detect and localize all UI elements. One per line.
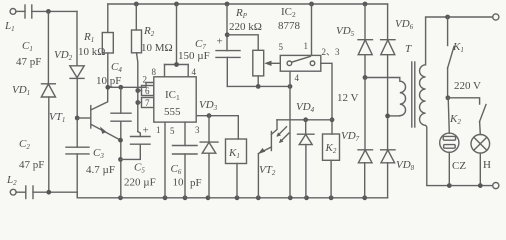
relay coil K2	[323, 134, 340, 198]
svg-text:2、3: 2、3	[322, 47, 341, 57]
wire down to socket CZ	[448, 98, 449, 133]
wires CZ and H to bottom right rail	[449, 152, 480, 185]
transformer primary winding	[420, 17, 427, 186]
svg-text:12 V: 12 V	[337, 92, 359, 104]
wire L1 to C1	[16, 10, 25, 12]
terminal L1	[4, 9, 16, 34]
capacitor C6 10pF	[171, 146, 202, 198]
capacitor C3 4.7uF	[66, 118, 115, 198]
svg-text:10: 10	[173, 177, 185, 189]
terminal top right	[493, 14, 499, 20]
svg-text:10 MΩ: 10 MΩ	[141, 42, 173, 54]
pin 7 notch	[142, 98, 154, 109]
wire C4 down through emitter node to ground	[118, 121, 123, 198]
wire R2 column down to C5, pin6/pin7 taps	[135, 87, 141, 131]
svg-text:7: 7	[145, 98, 150, 108]
svg-text:150 µF: 150 µF	[178, 50, 210, 62]
terminal bottom right	[493, 183, 499, 189]
transformer core	[412, 62, 415, 127]
svg-text:6: 6	[145, 86, 150, 96]
svg-text:220 V: 220 V	[454, 80, 481, 92]
svg-text:4: 4	[192, 67, 197, 77]
bottom ground rail	[77, 192, 387, 200]
resistor R1 10k	[78, 4, 113, 87]
pins 8-4 tie bar to supply	[165, 4, 189, 67]
top right wire to terminal	[426, 15, 493, 20]
svg-text:47 pF: 47 pF	[16, 56, 41, 68]
node: secondary bottom to VD6 column	[385, 114, 400, 119]
svg-text:5: 5	[170, 126, 175, 136]
svg-text:1: 1	[156, 125, 161, 135]
node B: R1/collector to pin2 wire	[105, 83, 153, 90]
switch contact K2	[448, 98, 486, 135]
svg-text:3: 3	[195, 125, 200, 135]
pin 4 stub	[188, 65, 196, 78]
wire C7 node to Rp top	[227, 35, 258, 51]
pin 6 notch	[142, 86, 154, 97]
switch contact K1	[448, 17, 464, 98]
svg-text:+: +	[143, 125, 149, 137]
svg-text:220 kΩ: 220 kΩ	[229, 21, 262, 33]
wire node A down to VD1	[47, 11, 49, 83]
resistor R2 10M	[132, 4, 173, 87]
IC2 8778 switch box	[278, 6, 321, 71]
pin 1 stub to ground	[156, 122, 165, 198]
capacitor C5 220uF	[121, 125, 156, 189]
potentiometer Rp 220k	[229, 7, 280, 86]
svg-text:8778: 8778	[278, 20, 301, 32]
node: secondary top to VD5 column	[363, 75, 400, 80]
terminal L2	[6, 174, 17, 195]
wire C1 to VD2 column, junction at node A	[32, 9, 77, 14]
transformer secondary winding	[400, 78, 406, 116]
svg-text:pF: pF	[190, 177, 202, 189]
svg-text:2: 2	[143, 75, 148, 85]
diode VD1	[12, 84, 56, 97]
svg-text:1: 1	[304, 41, 309, 51]
svg-text:10 pF: 10 pF	[96, 75, 121, 87]
top supply rail	[108, 2, 388, 7]
IC1 555 timer box	[154, 77, 196, 122]
svg-text:220 µF: 220 µF	[124, 177, 156, 189]
wire L2 to C2 to VD1 column	[16, 190, 77, 195]
IC2 pin 1 stub to supply	[311, 4, 313, 55]
wire C7/Rp bottom to pin4 node	[227, 84, 292, 89]
node under K1	[446, 95, 451, 100]
svg-text:555: 555	[164, 106, 181, 118]
wire VD2 to VT1 base node	[75, 78, 80, 120]
capacitor C4 10pF	[96, 61, 131, 121]
capacitor C1 47pF	[16, 5, 41, 68]
pin 8 stub	[152, 65, 165, 78]
svg-text:4.7 µF: 4.7 µF	[86, 164, 115, 176]
diode VD8	[381, 116, 415, 198]
svg-text:H: H	[483, 159, 491, 171]
svg-text:47 pF: 47 pF	[19, 159, 44, 171]
svg-text:+: +	[217, 36, 223, 48]
socket CZ	[440, 133, 467, 172]
diode VD2	[54, 11, 84, 78]
diode VD7	[341, 78, 373, 198]
diode VD5	[336, 4, 373, 78]
svg-text:T: T	[405, 43, 412, 55]
svg-text:5: 5	[279, 42, 284, 52]
diode VD6	[381, 4, 414, 116]
svg-text:10 kΩ: 10 kΩ	[78, 46, 105, 58]
relay node wire VT2/VD4/K2	[277, 117, 332, 122]
lamp H	[471, 135, 491, 172]
IC2 pins 2,3 wire to 12V line	[321, 47, 359, 134]
wire VD1 down to L2 wire	[48, 97, 50, 192]
diode VD4	[296, 101, 315, 198]
output wire from IC1 to K1	[196, 113, 238, 118]
wire pin4 node to ground	[289, 86, 291, 197]
pin 5 stub	[170, 122, 185, 145]
bottom right rail	[427, 183, 493, 188]
IC2 pin 4 stub	[290, 71, 300, 86]
phototransistor VT2	[258, 120, 289, 198]
relay coil K1	[226, 116, 247, 198]
capacitor C2 47pF	[19, 138, 44, 199]
svg-text:8: 8	[152, 67, 157, 77]
transistor VT1	[49, 87, 121, 140]
capacitor C7 150uF	[178, 4, 240, 86]
diode VD3	[199, 99, 218, 198]
svg-text:CZ: CZ	[452, 160, 466, 172]
svg-text:4: 4	[295, 73, 300, 83]
